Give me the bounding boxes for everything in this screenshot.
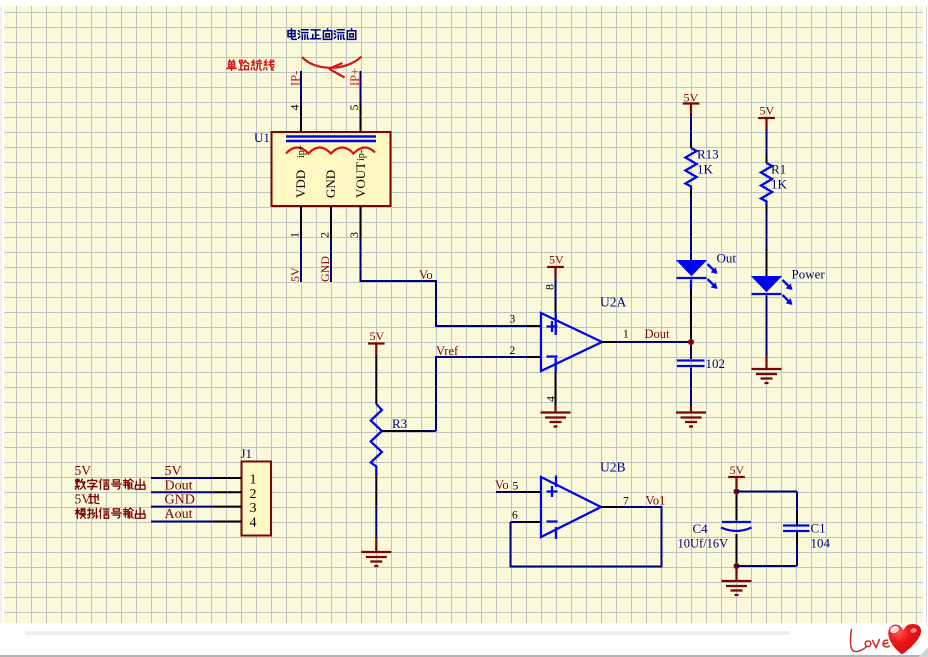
svg-text:4: 4 [250,515,257,530]
svg-text:C4: C4 [693,521,709,536]
svg-text:Vo: Vo [419,268,433,282]
svg-text:3: 3 [347,232,361,238]
svg-text:1K: 1K [771,177,788,192]
svg-text:Power: Power [792,267,826,282]
svg-text:Vo1: Vo1 [646,494,666,508]
svg-text:5V: 5V [75,492,92,507]
svg-text:ip-: ip- [356,150,367,161]
svg-text:5V: 5V [760,104,775,118]
svg-text:5V: 5V [75,463,92,478]
svg-text:J1: J1 [241,446,253,461]
svg-text:VOUT: VOUT [353,162,368,198]
svg-text:U1: U1 [254,130,270,145]
svg-text:GND: GND [323,170,338,198]
svg-text:5V: 5V [730,463,745,477]
svg-text:102: 102 [706,356,726,371]
svg-text:U2A: U2A [600,295,626,310]
svg-text:5: 5 [513,481,519,493]
svg-text:C1: C1 [811,521,826,536]
svg-text:R13: R13 [697,147,719,162]
svg-text:2: 2 [318,232,332,238]
svg-text:Dout: Dout [645,327,671,341]
svg-text:6: 6 [512,510,518,522]
svg-text:Vref: Vref [436,344,459,358]
svg-text:GND: GND [165,493,195,508]
svg-text:4: 4 [544,396,558,402]
svg-text:R1: R1 [771,162,786,177]
svg-text:GND: GND [318,256,332,282]
svg-text:1: 1 [250,473,257,488]
svg-text:Vo: Vo [495,478,509,492]
svg-text:5V: 5V [370,329,385,343]
svg-text:R3: R3 [392,416,407,431]
svg-text:IP+: IP+ [348,68,362,86]
svg-text:8: 8 [543,284,557,290]
svg-text:Dout: Dout [165,479,193,494]
svg-text:5V: 5V [288,267,302,282]
svg-text:VDD: VDD [293,170,308,198]
svg-text:2: 2 [510,345,516,357]
svg-text:U2B: U2B [600,460,626,475]
svg-text:Aout: Aout [165,507,193,522]
svg-text:2: 2 [250,487,257,502]
svg-text:5: 5 [347,105,361,111]
svg-text:5V: 5V [549,253,564,267]
svg-text:5V: 5V [165,464,182,479]
svg-text:ip+: ip+ [296,144,307,158]
svg-text:104: 104 [811,536,831,551]
svg-text:4: 4 [288,105,302,111]
svg-text:7: 7 [623,496,629,508]
svg-text:Out: Out [717,251,737,266]
svg-text:IP-: IP- [289,71,303,86]
svg-text:1K: 1K [697,162,714,177]
svg-text:1: 1 [623,329,629,341]
svg-text:10Uf/16V: 10Uf/16V [678,537,729,551]
svg-text:3: 3 [250,501,257,516]
svg-text:3: 3 [510,314,516,326]
svg-text:1: 1 [288,232,302,238]
